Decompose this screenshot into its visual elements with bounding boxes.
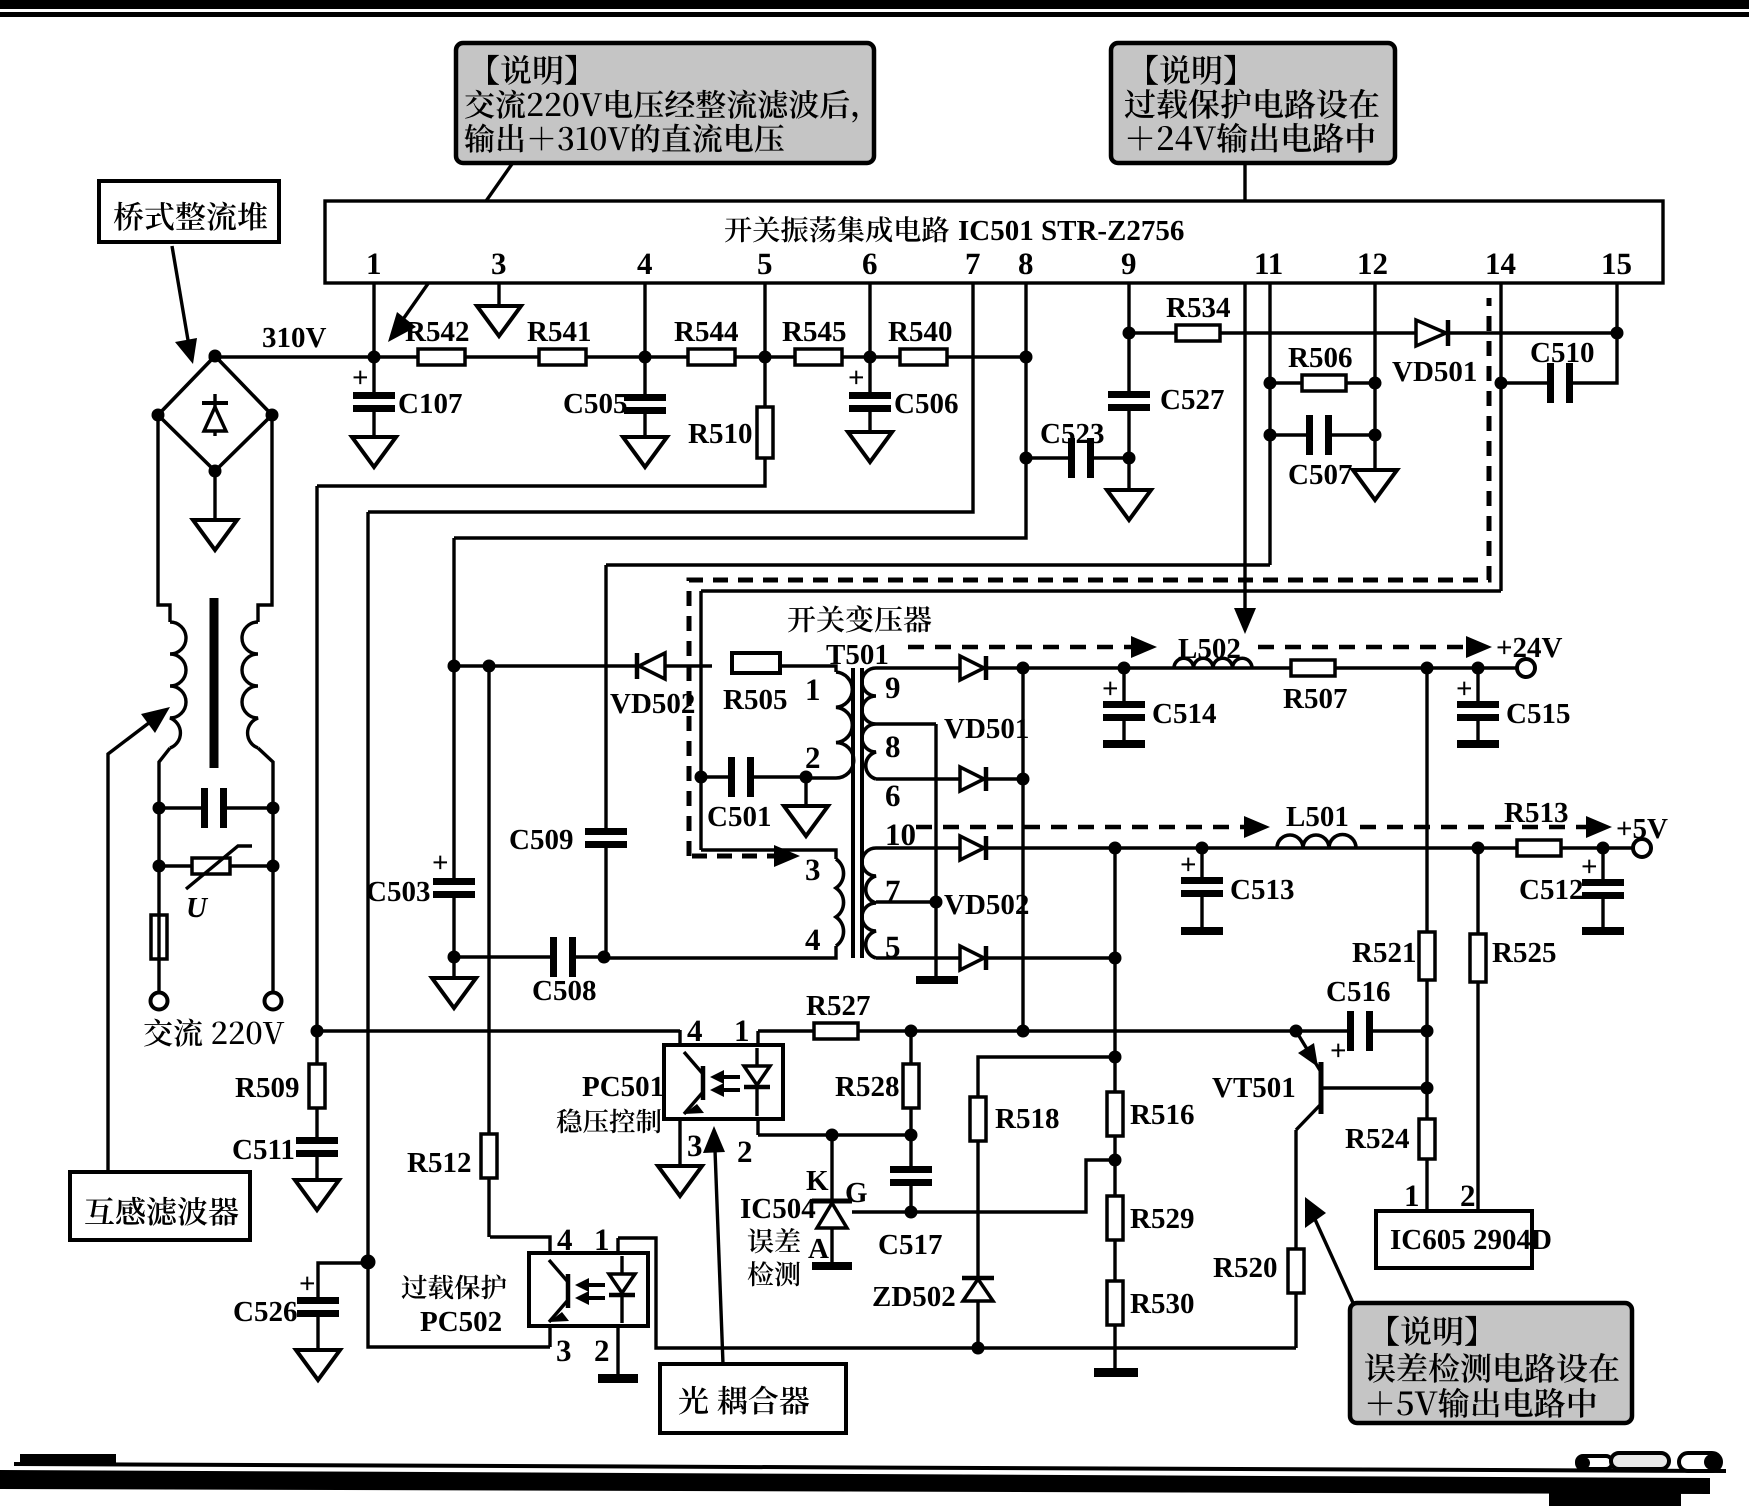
junction gate/C517: [905, 1206, 918, 1219]
terminal +5V: [1633, 839, 1651, 857]
ground under C527: [1107, 490, 1151, 520]
svg-text:+: +: [1180, 849, 1197, 881]
wire sec tap 10 to diode D3: [876, 846, 960, 849]
svg-text:R525: R525: [1492, 937, 1556, 969]
wire sec tap 6 to diode D2: [876, 777, 960, 780]
junction pin12/R506: [1369, 377, 1382, 390]
svg-text:R545: R545: [782, 316, 846, 348]
svg-text:2: 2: [1460, 1178, 1476, 1213]
capacitor C501: [701, 775, 730, 778]
junction pin8-line/VD502: [448, 660, 461, 673]
wire T501 pin4 to C508 node: [604, 946, 836, 958]
svg-text:R528: R528: [835, 1071, 899, 1103]
junction C526 tap on pin7 line: [361, 1255, 376, 1270]
wire pin11 vertical via C509: [604, 565, 607, 828]
shunt regulator IC504: [830, 1135, 833, 1201]
wire pin7 route down-left: [368, 283, 973, 512]
inductor L502: [1174, 658, 1252, 668]
wire pin8 route down-left: [454, 283, 1026, 538]
svg-text:7: 7: [965, 246, 981, 281]
junction R528 top: [905, 1025, 918, 1038]
bridge rectifier diamond: [158, 356, 272, 471]
resistor R521 (vertical): [1419, 932, 1435, 980]
svg-text:310V: 310V: [262, 322, 327, 354]
wire pin6 stub: [868, 283, 871, 357]
note box 2 (overload protection note): [1111, 43, 1395, 163]
resistor R518 (vertical): [970, 1097, 986, 1141]
svg-text:9: 9: [1121, 246, 1137, 281]
wire pin9 stub: [1127, 283, 1130, 391]
svg-text:IC504: IC504: [740, 1193, 816, 1225]
fuse: [151, 915, 167, 959]
diode D2: [960, 767, 984, 791]
svg-text:R541: R541: [527, 316, 591, 348]
junction R525 top: [1472, 842, 1485, 855]
svg-text:VD502: VD502: [944, 889, 1029, 921]
wire AC left leg lower: [159, 748, 170, 993]
wire IC504 gate to R529 junction: [852, 1160, 1115, 1212]
svg-text:C523: C523: [1040, 418, 1104, 450]
svg-text:R524: R524: [1345, 1123, 1409, 1155]
PC501 pin 3 stub: [678, 1119, 681, 1166]
PC501 pin 1 stub: [756, 1031, 759, 1045]
svg-text:R512: R512: [407, 1147, 471, 1179]
filter winding right: [242, 622, 258, 748]
scan artifact: bottom thin rule: [14, 1462, 1726, 1473]
junction bridge left: [152, 409, 165, 422]
junction bridge bottom: [209, 465, 222, 478]
wire bottom common (PC502 pin1 to VT501 collector): [618, 1238, 1296, 1348]
svg-text:1: 1: [594, 1222, 610, 1257]
svg-text:3: 3: [556, 1333, 572, 1368]
svg-text:+: +: [1102, 673, 1119, 705]
wire pin12 stub: [1373, 283, 1376, 470]
svg-text:A: A: [808, 1233, 829, 1265]
svg-text:R540: R540: [888, 316, 952, 348]
annotation arrow from optocoupler label to PC501: [715, 1150, 723, 1364]
resistor R542: [418, 349, 465, 365]
svg-text:C526: C526: [233, 1296, 297, 1328]
op IC U: IC501 STR-Z2756 switching oscillator box: [325, 201, 1663, 283]
wire pin14 vertical to T501 primary: [699, 591, 702, 850]
svg-text:+: +: [1456, 673, 1473, 705]
node AC 220V label: [144, 1018, 284, 1046]
ground bar under R530: [1094, 1368, 1138, 1377]
junction C515: [1472, 662, 1485, 675]
capacitor C517: [890, 1166, 932, 1173]
svg-text:C505: C505: [563, 388, 627, 420]
ground under C526: [296, 1350, 340, 1380]
svg-text:15: 15: [1601, 246, 1632, 281]
wire R525 line: [1476, 848, 1479, 1211]
filter winding left (line filter): [170, 622, 186, 748]
PC502 phototransistor: [566, 1274, 571, 1308]
annotation arrow from note box 3 to VT501 collector: [1313, 1215, 1354, 1305]
resistor R541: [539, 349, 586, 365]
junction ZD502/bottom wire: [972, 1342, 985, 1355]
svg-text:C107: C107: [398, 388, 462, 420]
resistor R528 (vertical): [909, 1031, 912, 1064]
svg-text:1: 1: [366, 246, 382, 281]
wire sec tap 7 to center line: [876, 900, 936, 903]
node label 开关变压器: [788, 605, 931, 632]
terminal right AC: [265, 993, 282, 1010]
T501 core: [851, 668, 855, 958]
junction tap7/center: [930, 896, 943, 909]
label box: line filter 互感滤波器: [70, 1172, 250, 1240]
resistor R530 (vertical): [1107, 1281, 1123, 1325]
wire pin7 vertical to PC502 pin3: [368, 512, 550, 1347]
svg-text:4: 4: [805, 922, 821, 957]
svg-text:G: G: [845, 1177, 868, 1209]
svg-text:9: 9: [885, 670, 901, 705]
annotation arrow from filter label to winding: [108, 716, 158, 1172]
label box: optocoupler 光耦合器: [660, 1364, 846, 1433]
wire 310V rail: [215, 355, 1026, 358]
svg-text:2: 2: [805, 740, 821, 775]
resistor R527: [814, 1023, 858, 1039]
junction C513: [1196, 842, 1209, 855]
svg-text:1: 1: [805, 672, 821, 707]
svg-text:C506: C506: [894, 388, 958, 420]
wire pin11 route down-left: [606, 563, 1270, 566]
note box 1 (310V explanation): [456, 43, 874, 163]
svg-text:C527: C527: [1160, 384, 1224, 416]
PC501 pin 2 stub: [756, 1119, 759, 1135]
wire D4 out to R516 line: [986, 956, 1115, 959]
capacitor C507: [1270, 433, 1308, 436]
junction R518/R516 line: [1109, 1051, 1122, 1064]
wire D2 out to junction: [986, 777, 1023, 780]
resistor R534: [1176, 325, 1220, 341]
ground under bridge: [193, 520, 237, 550]
junction R512-top/VD502: [483, 660, 496, 673]
wire +5V rail: [986, 846, 1633, 849]
svg-text:R544: R544: [674, 316, 738, 348]
svg-text:C511: C511: [232, 1134, 295, 1166]
wire R518 top jog: [978, 1057, 1115, 1097]
wire VD502 to R505: [665, 664, 712, 667]
svg-text:+: +: [432, 847, 449, 879]
diode D3 (5V rectifier): [960, 836, 984, 860]
note box 3 (error detection note): [1350, 1303, 1632, 1423]
diode VD502 (snubber, cathode left): [635, 653, 640, 679]
wire pin15 stub: [1615, 283, 1618, 333]
terminal +24V: [1517, 659, 1535, 677]
dashed energy-flow arrow to L502: [908, 645, 1135, 650]
svg-text:+: +: [1581, 851, 1598, 883]
wire AC right leg lower: [258, 748, 273, 993]
resistor R510 (vertical): [763, 357, 766, 407]
PC502 pin 2 stub: [616, 1326, 619, 1374]
svg-text:5: 5: [757, 246, 773, 281]
wire center-tap vertical: [934, 724, 937, 976]
T501 secondary winding 9-8-6: [862, 668, 876, 779]
junction pin6: [864, 351, 877, 364]
PC501 light arrows: [716, 1075, 740, 1079]
optocoupler PC501 box: [664, 1045, 783, 1119]
terminal left AC: [151, 993, 168, 1010]
wire VT501 base to R524 line: [1321, 1086, 1427, 1089]
svg-text:C512: C512: [1519, 874, 1583, 906]
svg-text:1: 1: [1404, 1178, 1420, 1213]
svg-text:2: 2: [737, 1134, 753, 1169]
junction C501 right / ground: [800, 771, 813, 784]
wire pin8 vertical to C503: [452, 538, 455, 878]
junction bridge top: [209, 350, 222, 363]
junction base/R524: [1421, 1082, 1434, 1095]
wire AC left leg upper: [158, 415, 170, 622]
ground under PC501 pin3: [658, 1166, 702, 1196]
svg-text:R520: R520: [1213, 1252, 1277, 1284]
svg-text:C517: C517: [878, 1229, 942, 1261]
junction gate/R529: [1109, 1154, 1122, 1167]
diode VD501 (to pin15): [1416, 320, 1446, 346]
svg-text:4: 4: [637, 246, 653, 281]
dashed energy-flow arrow to L501: [916, 825, 1246, 830]
svg-text:R513: R513: [1504, 797, 1568, 829]
capacitor C515 (electrolytic): [1476, 668, 1479, 701]
resistor R525 (vertical): [1470, 934, 1486, 982]
svg-text:PC502: PC502: [420, 1306, 502, 1338]
svg-text:VD502: VD502: [610, 688, 695, 720]
svg-text:C503: C503: [366, 876, 430, 908]
svg-text:C514: C514: [1152, 698, 1216, 730]
wire pin11 stub: [1268, 283, 1271, 565]
capacitor C513 (electrolytic): [1200, 848, 1203, 877]
svg-text:R529: R529: [1130, 1203, 1194, 1235]
junction D2/x1023: [1017, 773, 1030, 786]
wire pin14 route down-left: [701, 589, 1501, 592]
resistor R544: [688, 349, 735, 365]
scan artifact: bottom thick bar: [0, 1470, 1710, 1494]
svg-text:VD501: VD501: [1392, 356, 1477, 388]
svg-text:R505: R505: [723, 684, 787, 716]
resistor R545: [795, 349, 842, 365]
resistor R513: [1517, 840, 1561, 856]
junction bridge out: [209, 351, 222, 364]
capacitor C511: [315, 1108, 318, 1137]
capacitor C526 (electrolytic): [318, 1263, 368, 1297]
svg-text:R506: R506: [1288, 342, 1352, 374]
annotation arrow from note box 2 down to L502: [1243, 164, 1246, 612]
diode inside bridge: [213, 394, 216, 436]
ground under pin12: [1353, 470, 1397, 500]
svg-text:C508: C508: [532, 975, 596, 1007]
svg-text:3: 3: [491, 246, 507, 281]
PC502 labels: [402, 1274, 507, 1299]
wire VT501 collector to R520: [1294, 1130, 1297, 1249]
svg-text:+: +: [299, 1268, 316, 1300]
svg-text:R527: R527: [806, 990, 870, 1022]
junction 24V-diode line end: [1017, 1025, 1030, 1038]
PC502 pin 3 stub: [548, 1326, 551, 1347]
ground bar under PC502 pin2: [598, 1374, 638, 1383]
junction pin11/R506: [1264, 377, 1277, 390]
resistor R509 (vertical): [309, 1064, 325, 1108]
filter core bar: [210, 598, 219, 768]
junction C516/R521: [1421, 1025, 1434, 1038]
wire R518 to ZD502: [976, 1141, 979, 1278]
svg-text:R530: R530: [1130, 1288, 1194, 1320]
inductor L501: [1277, 835, 1356, 849]
resistor R507: [1291, 660, 1335, 676]
junction pin12/C507: [1369, 429, 1382, 442]
diode D1 (24V rectifier VD501): [960, 656, 984, 680]
junction IC504 cathode: [826, 1129, 839, 1142]
junction pin1: [368, 351, 381, 364]
capacitor C505: [643, 357, 646, 394]
junction D4/R516 line: [1109, 952, 1122, 965]
wire pin3 stub: [497, 283, 500, 306]
svg-text:R518: R518: [995, 1103, 1059, 1135]
svg-text:R509: R509: [235, 1072, 299, 1104]
svg-text:4: 4: [557, 1222, 573, 1257]
wire +24V rail: [986, 666, 1517, 669]
wire AC right leg upper: [258, 415, 272, 622]
wire R512 to PC502 pin4: [487, 1178, 490, 1237]
junction pin5: [759, 351, 772, 364]
junction pin14/C510: [1495, 377, 1508, 390]
junction pin4: [639, 351, 652, 364]
wire R510 bottom to left corner: [317, 458, 765, 486]
junction C514: [1118, 662, 1131, 675]
wire R534 line: [1129, 331, 1617, 334]
optocoupler PC502 box: [529, 1253, 648, 1326]
svg-text:8: 8: [885, 729, 901, 764]
T501 secondary winding 10-7-5: [862, 848, 876, 958]
svg-text:11: 11: [1254, 246, 1283, 281]
PC501 phototransistor: [701, 1066, 706, 1100]
wire corner1 vertical (R510 path): [315, 486, 318, 1064]
junction pin11/C507: [1264, 429, 1277, 442]
junction pin9/R534: [1123, 327, 1136, 340]
PC502 pin 1 stub: [616, 1238, 619, 1253]
capacitor C510: [1501, 381, 1549, 384]
capacitor C514 (electrolytic): [1122, 668, 1125, 701]
diode D4: [960, 946, 984, 970]
wire 24V diode pair vertical: [1021, 668, 1024, 1032]
resistor R505: [732, 653, 780, 673]
junction C512: [1597, 842, 1610, 855]
svg-text:PC501: PC501: [582, 1071, 664, 1103]
varistor U: [159, 864, 192, 867]
capacitor C512 (electrolytic): [1601, 848, 1604, 879]
svg-text:R510: R510: [688, 418, 752, 450]
svg-text:C515: C515: [1506, 698, 1570, 730]
capacitor C107 (electrolytic): [372, 357, 375, 392]
capacitor C523: [1026, 456, 1070, 459]
svg-text:IC605 2904D: IC605 2904D: [1390, 1224, 1552, 1256]
svg-text:6: 6: [885, 778, 901, 813]
svg-text:3: 3: [687, 1128, 703, 1163]
svg-text:R516: R516: [1130, 1099, 1194, 1131]
capacitor C509: [585, 828, 627, 835]
svg-text:14: 14: [1485, 246, 1516, 281]
capacitor C508: [550, 937, 557, 977]
svg-text:C501: C501: [707, 801, 771, 833]
PC502 pin 4 stub + R512 link: [490, 1237, 550, 1253]
svg-text:VD501: VD501: [944, 713, 1029, 745]
annotation arrow from bridge label to bridge: [172, 246, 189, 346]
junction bridge right: [266, 409, 279, 422]
svg-text:R507: R507: [1283, 683, 1347, 715]
junction VT501 emitter: [1290, 1025, 1303, 1038]
ground under C501: [804, 777, 807, 806]
junction pin8/C523: [1020, 452, 1033, 465]
wire sec tap 5 to diode D4: [876, 956, 960, 959]
wire R521 line: [1425, 668, 1428, 1211]
wire T501 pin2 to C501 node: [806, 776, 836, 779]
junction C508/pin11 route: [598, 951, 611, 964]
capacitor X-cap across line: [159, 806, 203, 809]
svg-text:2: 2: [594, 1333, 610, 1368]
svg-text:4: 4: [687, 1013, 703, 1048]
ground bar under center tap: [916, 976, 958, 984]
T501 primary winding 3-4: [836, 859, 844, 946]
svg-text:C507: C507: [1288, 459, 1352, 491]
wire pin14 vertical: [1499, 283, 1502, 591]
wire R516 divider line: [1113, 848, 1116, 1368]
resistor R506: [1270, 381, 1375, 384]
svg-text:12: 12: [1357, 246, 1388, 281]
label box: bridge rectifier 桥式整流堆: [99, 181, 279, 242]
svg-text:+: +: [352, 362, 369, 394]
resistor R512 (vertical): [487, 666, 490, 1134]
dashed feedback boundary box: [689, 298, 1489, 856]
op-amp IC605 box: [1376, 1211, 1532, 1268]
junction rail/R509: [311, 1025, 324, 1038]
annotation arrow from note box 1 to 310V node: [399, 164, 512, 325]
dashed arrow into T501 primary: [692, 854, 783, 859]
svg-text:R542: R542: [405, 316, 469, 348]
svg-text:C510: C510: [1530, 337, 1594, 369]
ground under C107: [352, 437, 396, 467]
svg-text:+24V: +24V: [1496, 632, 1563, 664]
wire pin14-route to T501 pin3: [701, 850, 836, 859]
svg-text:+5V: +5V: [1616, 813, 1668, 845]
wire R505 to T501 pin1: [780, 666, 836, 672]
wire PC501 pin2 line: [758, 1133, 911, 1136]
T501 primary winding 1-2: [836, 672, 854, 778]
PC501 pin 4 stub: [678, 1030, 681, 1045]
resistor R540: [900, 349, 947, 365]
svg-text:VT501: VT501: [1212, 1072, 1296, 1104]
svg-text:6: 6: [862, 246, 878, 281]
zener diode ZD502: [962, 1276, 994, 1281]
svg-text:U: U: [186, 892, 209, 924]
PC501 LED: [755, 1048, 758, 1066]
svg-text:ZD502: ZD502: [872, 1281, 956, 1313]
junction pin8 rail end: [1020, 351, 1033, 364]
capacitor C527: [1108, 391, 1150, 398]
svg-text:R521: R521: [1352, 937, 1416, 969]
PC502 light arrows: [581, 1283, 605, 1287]
wire sec tap 9 to diode D1: [876, 666, 960, 669]
wire AC-side rail to PC501 pin4: [317, 1029, 680, 1032]
ground under C511: [295, 1180, 339, 1210]
junction R516 top: [1109, 842, 1122, 855]
junction pin15/R534: [1611, 327, 1624, 340]
capacitor C516 (electrolytic): [1296, 1029, 1349, 1032]
ground under C503: [432, 978, 476, 1008]
wire VD502 anode line: [454, 664, 637, 667]
wire R527 line (PC501 pin1 to C516): [758, 1029, 1296, 1032]
wire pin1 stub: [372, 283, 375, 357]
wire bridge bottom stub: [213, 471, 216, 520]
PC502 LED: [620, 1256, 623, 1274]
scan artifact: top black bar: [0, 0, 1749, 9]
